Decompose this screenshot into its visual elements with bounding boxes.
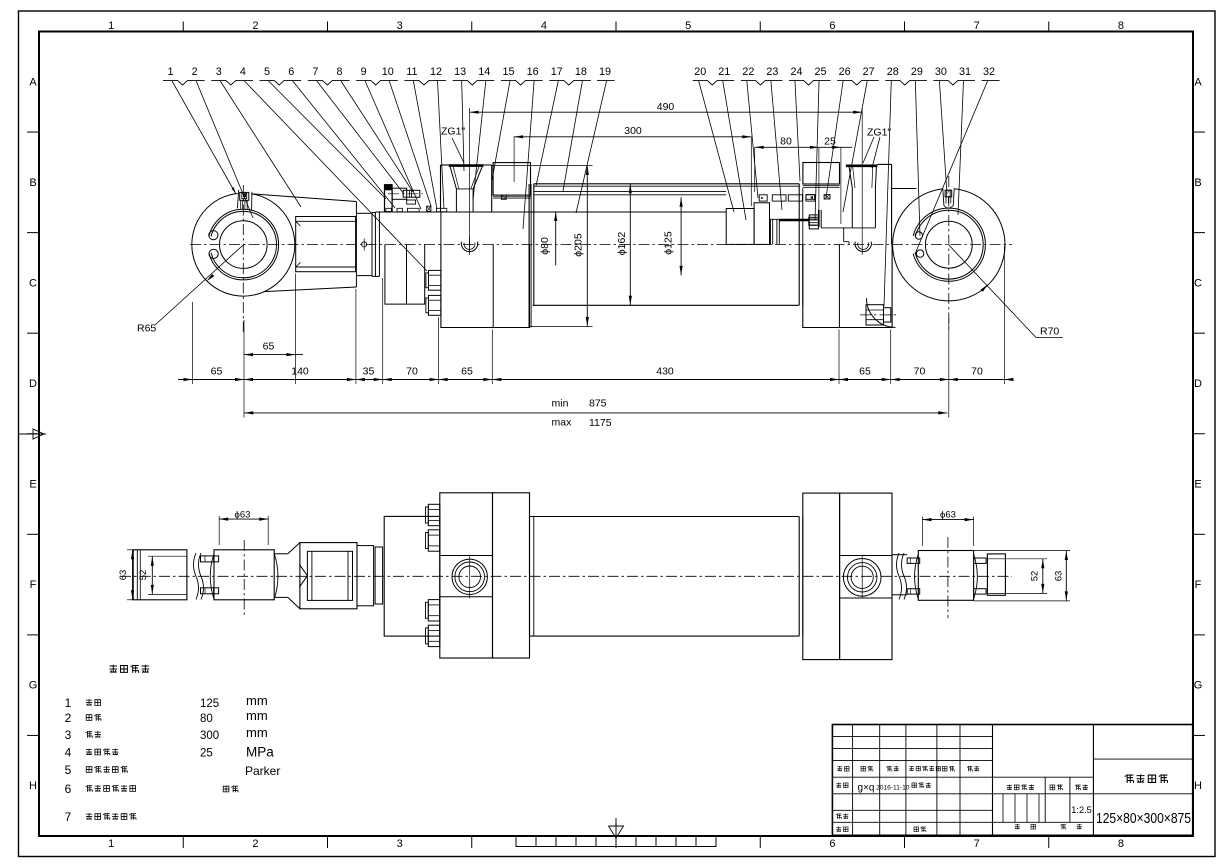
bv 52 dim right (987, 559, 1047, 594)
head block left (441, 165, 451, 212)
bv 52 dim left (138, 556, 187, 594)
svg-text:mm: mm (246, 693, 268, 708)
dimension min 875 (244, 398, 947, 415)
bv rear flange square (803, 493, 892, 659)
bv left break lines (194, 553, 204, 599)
svg-text:16: 16 (527, 66, 539, 78)
svg-text:min: min (552, 398, 569, 410)
svg-text:70: 70 (971, 365, 983, 377)
svg-text:mm: mm (246, 725, 268, 740)
svg-text:63: 63 (1054, 571, 1065, 582)
clevis body tangents (253, 194, 357, 202)
front flange body (441, 212, 530, 328)
part leader 23 (766, 66, 782, 210)
dimension phi125 (663, 197, 683, 275)
label R70 (949, 245, 1063, 337)
svg-text:26: 26 (839, 66, 851, 78)
left eye lube hole lower (209, 249, 218, 258)
part leader 9 (361, 66, 421, 209)
part leader 22 (742, 66, 758, 198)
svg-text:8: 8 (336, 66, 342, 78)
part leader 15 (492, 66, 514, 180)
svg-text:24: 24 (790, 66, 802, 78)
svg-text:19: 19 (599, 66, 611, 78)
bv left fork flare (274, 543, 300, 609)
svg-text:490: 490 (657, 101, 675, 113)
rod seal 4 (436, 208, 446, 211)
svg-text:25: 25 (200, 747, 213, 759)
part leader 28 (884, 66, 899, 306)
gland left edge (375, 212, 379, 276)
bv fork vee (299, 564, 307, 587)
rod seal 1 (397, 208, 403, 211)
svg-text:1: 1 (65, 696, 72, 710)
title block grid (832, 725, 1192, 836)
svg-text:2: 2 (65, 711, 72, 725)
svg-text:28: 28 (887, 66, 899, 78)
right eye lube hole lower (916, 250, 923, 257)
svg-text:65: 65 (461, 365, 473, 377)
part number baseline right group (693, 80, 1000, 85)
dimension phi205 (492, 166, 593, 327)
dimension 65a (178, 365, 1010, 381)
svg-text:52: 52 (1030, 571, 1041, 582)
part leader 24 (790, 66, 802, 181)
svg-text:4: 4 (65, 745, 72, 759)
cushion valve plug (860, 305, 898, 325)
svg-text:A: A (1194, 76, 1202, 88)
svg-text:E: E (29, 479, 36, 491)
drawing name (1125, 774, 1134, 783)
svg-text:23: 23 (766, 66, 778, 78)
rear rod bearing seal (806, 195, 815, 200)
part leader 1 (167, 66, 236, 194)
dimension 70a (374, 365, 448, 381)
svg-text:13: 13 (454, 66, 466, 78)
svg-text:mm: mm (246, 708, 268, 723)
left eye bore (220, 221, 268, 269)
svg-text:65: 65 (211, 365, 223, 377)
right grease fitting (942, 185, 955, 208)
barrel bore top (534, 191, 726, 194)
piston wear ring 2 (772, 195, 786, 201)
pin mark (362, 239, 367, 251)
svg-text:1175: 1175 (589, 417, 612, 429)
label max 1175 (552, 417, 612, 430)
bv barrel (530, 517, 803, 637)
bv left eye centerline (243, 540, 245, 616)
bv left fork block (300, 543, 357, 609)
svg-text:5: 5 (685, 20, 691, 32)
barrel OD top (534, 184, 799, 186)
piston nut (809, 215, 818, 229)
dimension 80 (755, 136, 819, 212)
svg-text:6: 6 (288, 66, 294, 78)
bv flange square (440, 493, 530, 658)
part leader 27 (843, 66, 875, 212)
svg-text:ϕ63: ϕ63 (940, 509, 956, 520)
washer band (356, 213, 372, 275)
left port ZG1 thread flare (449, 166, 484, 189)
svg-text:4: 4 (240, 66, 246, 78)
part leader 10 (382, 66, 431, 206)
part leader 11 (406, 66, 437, 209)
part leader 31 (958, 66, 971, 215)
rear flange body (803, 244, 892, 327)
bv gland block (384, 516, 440, 636)
main view horizontal centerline (190, 244, 1012, 246)
bv right rod stub (987, 554, 1005, 595)
svg-text:140: 140 (291, 365, 309, 377)
svg-text:1:2.5: 1:2.5 (1071, 805, 1091, 815)
parameter row 2 (65, 708, 268, 725)
svg-text:MPa: MPa (246, 744, 274, 759)
svg-text:2: 2 (252, 838, 258, 850)
svg-text:430: 430 (656, 365, 674, 377)
rod end nut (809, 210, 821, 228)
svg-text:B: B (1194, 177, 1201, 189)
svg-text:125×80×300×875: 125×80×300×875 (1096, 811, 1191, 827)
barrel OD bottom (533, 304, 800, 306)
svg-text:2016-11-10: 2016-11-10 (876, 784, 910, 791)
part leader 2 (192, 66, 253, 218)
part leader 20 (694, 66, 734, 212)
svg-text:3: 3 (397, 838, 403, 850)
bv right rod stub lines (892, 555, 907, 595)
svg-text:H: H (1194, 780, 1202, 792)
svg-text:F: F (30, 579, 37, 591)
svg-text:ϕ162: ϕ162 (616, 232, 628, 256)
rear head body (878, 164, 917, 244)
part leader 18 (563, 66, 587, 191)
spacer block (493, 163, 530, 199)
rod seal 3 (427, 206, 431, 211)
part leader 5 (264, 66, 386, 199)
svg-text:ZG1": ZG1" (441, 126, 465, 138)
cushion valve boss (866, 298, 895, 327)
svg-text:25: 25 (815, 66, 827, 78)
svg-text:52: 52 (138, 570, 149, 581)
title block header texts (836, 766, 1092, 832)
svg-text:C: C (1194, 277, 1202, 289)
barrel right end weld (799, 184, 803, 305)
svg-text:125: 125 (200, 698, 219, 710)
svg-text:6: 6 (65, 782, 72, 796)
svg-text:35: 35 (363, 365, 375, 377)
svg-text:9: 9 (361, 66, 367, 78)
svg-text:C: C (29, 277, 37, 289)
part leader 26 (826, 66, 851, 198)
dimension 140 (235, 365, 365, 381)
svg-text:G: G (29, 680, 38, 692)
bv left bearing block (210, 550, 278, 600)
svg-text:14: 14 (478, 66, 490, 78)
svg-text:7: 7 (312, 66, 318, 78)
bottom view centerline (120, 575, 1012, 577)
right eye bearing ring (912, 208, 985, 281)
part leader 6 (288, 66, 395, 208)
svg-text:G: G (1194, 680, 1203, 692)
svg-text:7: 7 (65, 810, 72, 824)
left eye bearing ring (208, 209, 279, 280)
svg-text:7: 7 (974, 20, 980, 32)
left eye lube hole upper (209, 231, 218, 240)
part leader 16 (523, 66, 539, 229)
left port hole (456, 189, 473, 212)
right eye lube hole upper (915, 232, 922, 239)
part leader 7 (312, 66, 404, 194)
svg-text:300: 300 (200, 730, 219, 742)
gland lower body (385, 244, 425, 304)
dimension 65 small (244, 341, 303, 357)
svg-text:1: 1 (108, 838, 114, 850)
bv right bearing block (915, 551, 978, 601)
label ZG1 right (863, 127, 891, 169)
rod wiper housing (385, 185, 393, 212)
flange plug left (461, 237, 477, 253)
bv hex bolts (426, 504, 440, 646)
bv left clamp upper (201, 556, 219, 562)
svg-text:ϕ80: ϕ80 (539, 237, 551, 255)
rod seal 2 (407, 208, 419, 211)
bv port circles (452, 555, 487, 599)
left grease fitting (237, 189, 252, 211)
svg-text:70: 70 (914, 365, 926, 377)
comparison scale strip (516, 836, 716, 847)
part leader 30 (935, 66, 947, 194)
svg-text:32: 32 (983, 66, 995, 78)
tech parameters title (109, 665, 117, 673)
svg-text:8: 8 (1118, 838, 1124, 850)
svg-text:31: 31 (959, 66, 971, 78)
svg-text:3: 3 (216, 66, 222, 78)
svg-text:70: 70 (406, 365, 418, 377)
parameter row 3 (65, 725, 268, 742)
svg-text:7: 7 (974, 838, 980, 850)
svg-text:80: 80 (200, 713, 213, 725)
dimension 300 (514, 125, 751, 206)
svg-text:29: 29 (911, 66, 923, 78)
svg-text:6: 6 (829, 20, 835, 32)
part leader 19 (576, 66, 611, 213)
svg-text:3: 3 (65, 728, 72, 742)
svg-text:1: 1 (167, 66, 173, 78)
dimension 65c (830, 365, 900, 381)
dimension 65b (430, 365, 502, 381)
svg-text:g×q: g×q (858, 783, 875, 794)
svg-text:15: 15 (502, 66, 514, 78)
svg-text:max: max (552, 417, 573, 429)
piston rod top edge (375, 211, 726, 213)
svg-text:ϕ63: ϕ63 (235, 509, 251, 520)
rod thread (779, 219, 809, 221)
svg-text:Parker: Parker (245, 764, 280, 778)
svg-text:65: 65 (263, 341, 275, 353)
part leader 17 (536, 66, 563, 186)
dimension chain extension lines (193, 246, 1005, 418)
right port centerline / 490 extension (861, 108, 863, 255)
piston seal rings (770, 219, 780, 244)
svg-text:B: B (29, 177, 36, 189)
svg-text:2: 2 (192, 66, 198, 78)
left clevis eye head circle R65 (192, 193, 295, 296)
piston wear ring 4 (806, 195, 815, 201)
dimension phi80 (539, 212, 557, 266)
label R65 (137, 245, 243, 334)
svg-text:E: E (1194, 479, 1201, 491)
right eye bore (925, 221, 972, 268)
svg-text:D: D (1194, 378, 1202, 390)
retainer ring (372, 213, 375, 277)
label ZG1 left (441, 126, 465, 164)
bv 63 dim left (118, 550, 135, 600)
part leader 3 (216, 66, 301, 207)
svg-text:875: 875 (589, 398, 607, 410)
svg-text:17: 17 (551, 66, 563, 78)
svg-text:18: 18 (575, 66, 587, 78)
svg-text:5: 5 (65, 763, 72, 777)
part leader 21 (718, 66, 746, 220)
left eye vertical centerline (242, 185, 244, 332)
svg-text:63: 63 (118, 570, 129, 581)
part leader 29 (911, 66, 923, 236)
svg-text:R70: R70 (1040, 326, 1059, 338)
svg-text:6: 6 (829, 838, 835, 850)
bv right clamp upper (907, 558, 920, 563)
parameter row 6 (65, 782, 136, 796)
part leader 4 (240, 66, 427, 271)
part leader 13 (454, 66, 466, 171)
centering mark left (19, 429, 47, 439)
part number baseline left group (163, 80, 615, 85)
dimension 35 (347, 365, 392, 381)
svg-text:11: 11 (406, 66, 417, 78)
rear head block above barrel (803, 163, 840, 185)
svg-text:D: D (29, 378, 37, 390)
piston wear ring 3 (788, 195, 802, 201)
rear head inner step (821, 228, 875, 245)
svg-text:12: 12 (430, 66, 442, 78)
dimension 70c (940, 365, 1014, 381)
parameter row 1 (65, 693, 268, 710)
right eye head circle R70 (893, 189, 1005, 301)
right port ZG1 thread flare (846, 166, 878, 188)
svg-text:2: 2 (252, 20, 258, 32)
part leader 32 (915, 66, 995, 254)
svg-text:30: 30 (935, 66, 947, 78)
port hex fitting upper (426, 270, 441, 290)
dimension 25 (819, 136, 852, 224)
centering mark bottom (609, 818, 624, 846)
head block right of port (473, 165, 492, 212)
bv right clamps outer (974, 558, 987, 594)
svg-text:F: F (1195, 579, 1202, 591)
svg-text:22: 22 (742, 66, 754, 78)
svg-text:1: 1 (108, 20, 114, 32)
clevis right edge (355, 202, 357, 288)
svg-text:21: 21 (718, 66, 730, 78)
svg-text:ZG1": ZG1" (867, 127, 891, 139)
svg-text:ϕ125: ϕ125 (663, 231, 675, 255)
parameter row 5 (65, 763, 281, 778)
dimension 490 (470, 101, 863, 114)
flange plug right (855, 242, 871, 252)
right eye vertical centerline (948, 176, 950, 332)
dimension phi162 (616, 184, 632, 305)
bv left rod block (133, 550, 187, 600)
bv right clamp lower (907, 589, 920, 594)
flange weld joint (529, 184, 534, 328)
rear head seal (824, 195, 830, 199)
bv rings (357, 546, 383, 606)
svg-text:8: 8 (1118, 20, 1124, 32)
piston wear ring 1 (759, 195, 767, 201)
svg-text:27: 27 (863, 66, 875, 78)
svg-text:20: 20 (694, 66, 706, 78)
value blue color (223, 786, 229, 792)
grease fitting horizontal (388, 188, 423, 199)
svg-text:H: H (29, 780, 37, 792)
bv 63 dim right (974, 551, 1070, 601)
svg-text:80: 80 (780, 136, 792, 148)
gland ring (407, 200, 416, 204)
svg-text:A: A (29, 76, 37, 88)
svg-text:3: 3 (397, 20, 403, 32)
port hex fitting lower (426, 295, 441, 315)
bv phi63 dim left (219, 509, 268, 545)
piston body (726, 203, 769, 245)
parameter row 7 (65, 810, 136, 824)
part leader 12 (430, 66, 444, 209)
rear head od lines (803, 184, 840, 187)
rod end attachment box (296, 217, 356, 272)
bv left clamp lower (201, 588, 219, 594)
svg-text:5: 5 (264, 66, 270, 78)
svg-text:300: 300 (624, 125, 642, 137)
bv phi63 dim right (923, 509, 974, 546)
dimension 430 (483, 365, 848, 381)
left port centerline / 490 extension (469, 108, 471, 255)
bv right break lines (897, 553, 907, 599)
svg-text:4: 4 (541, 20, 547, 32)
bv rear port circles (843, 556, 881, 599)
bv right eye centerline (947, 537, 949, 618)
svg-text:R65: R65 (137, 323, 156, 335)
svg-text:65: 65 (859, 365, 871, 377)
parameter row 4 (65, 744, 275, 759)
spacer seal (501, 195, 506, 199)
part leader 8 (336, 66, 413, 192)
dimension 70b (882, 365, 958, 381)
svg-text:ϕ205: ϕ205 (573, 233, 585, 257)
right port hole (852, 188, 875, 228)
svg-text:10: 10 (382, 66, 394, 78)
part leader 14 (473, 66, 490, 200)
part leader 25 (815, 66, 827, 220)
